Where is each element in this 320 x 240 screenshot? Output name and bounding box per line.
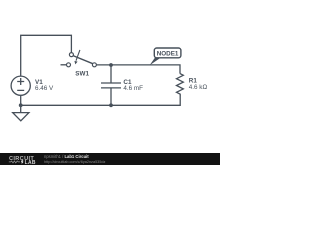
node NODE1 flag [150,48,181,65]
wire top-left from V1 top up and across to switch [21,35,72,76]
junction dot ground node [19,103,23,107]
wire middle rail from switch to R1 top [96,65,180,74]
junction dot C1 top [109,63,113,67]
capacitor C1 [101,65,121,105]
voltage source V1 [11,76,30,95]
svg-text:http://circuitlab.com/c/6ya2nz: http://circuitlab.com/c/6ya2nza535dz [44,160,106,164]
svg-text:SW1: SW1 [75,71,89,78]
svg-text:NODE1: NODE1 [157,51,179,58]
wire bottom rail from ground junction to R1 bottom [21,95,181,105]
resistor R1 [177,74,184,96]
svg-text:npsmith1 / Lab1 Circuit: npsmith1 / Lab1 Circuit [44,154,89,159]
svg-text:4.6 kΩ: 4.6 kΩ [189,84,208,91]
svg-text:4.6 mF: 4.6 mF [123,85,143,92]
footer logo zigzag [9,161,20,163]
junction dot C1 bottom [109,103,113,107]
svg-text:LAB: LAB [25,160,36,165]
footer bar [0,153,220,165]
svg-text:6.46 V: 6.46 V [35,85,54,92]
wire V1 bottom to ground [20,95,22,112]
ground [13,113,29,121]
footer logo bolt [21,160,24,164]
switch SW1 [61,50,97,67]
